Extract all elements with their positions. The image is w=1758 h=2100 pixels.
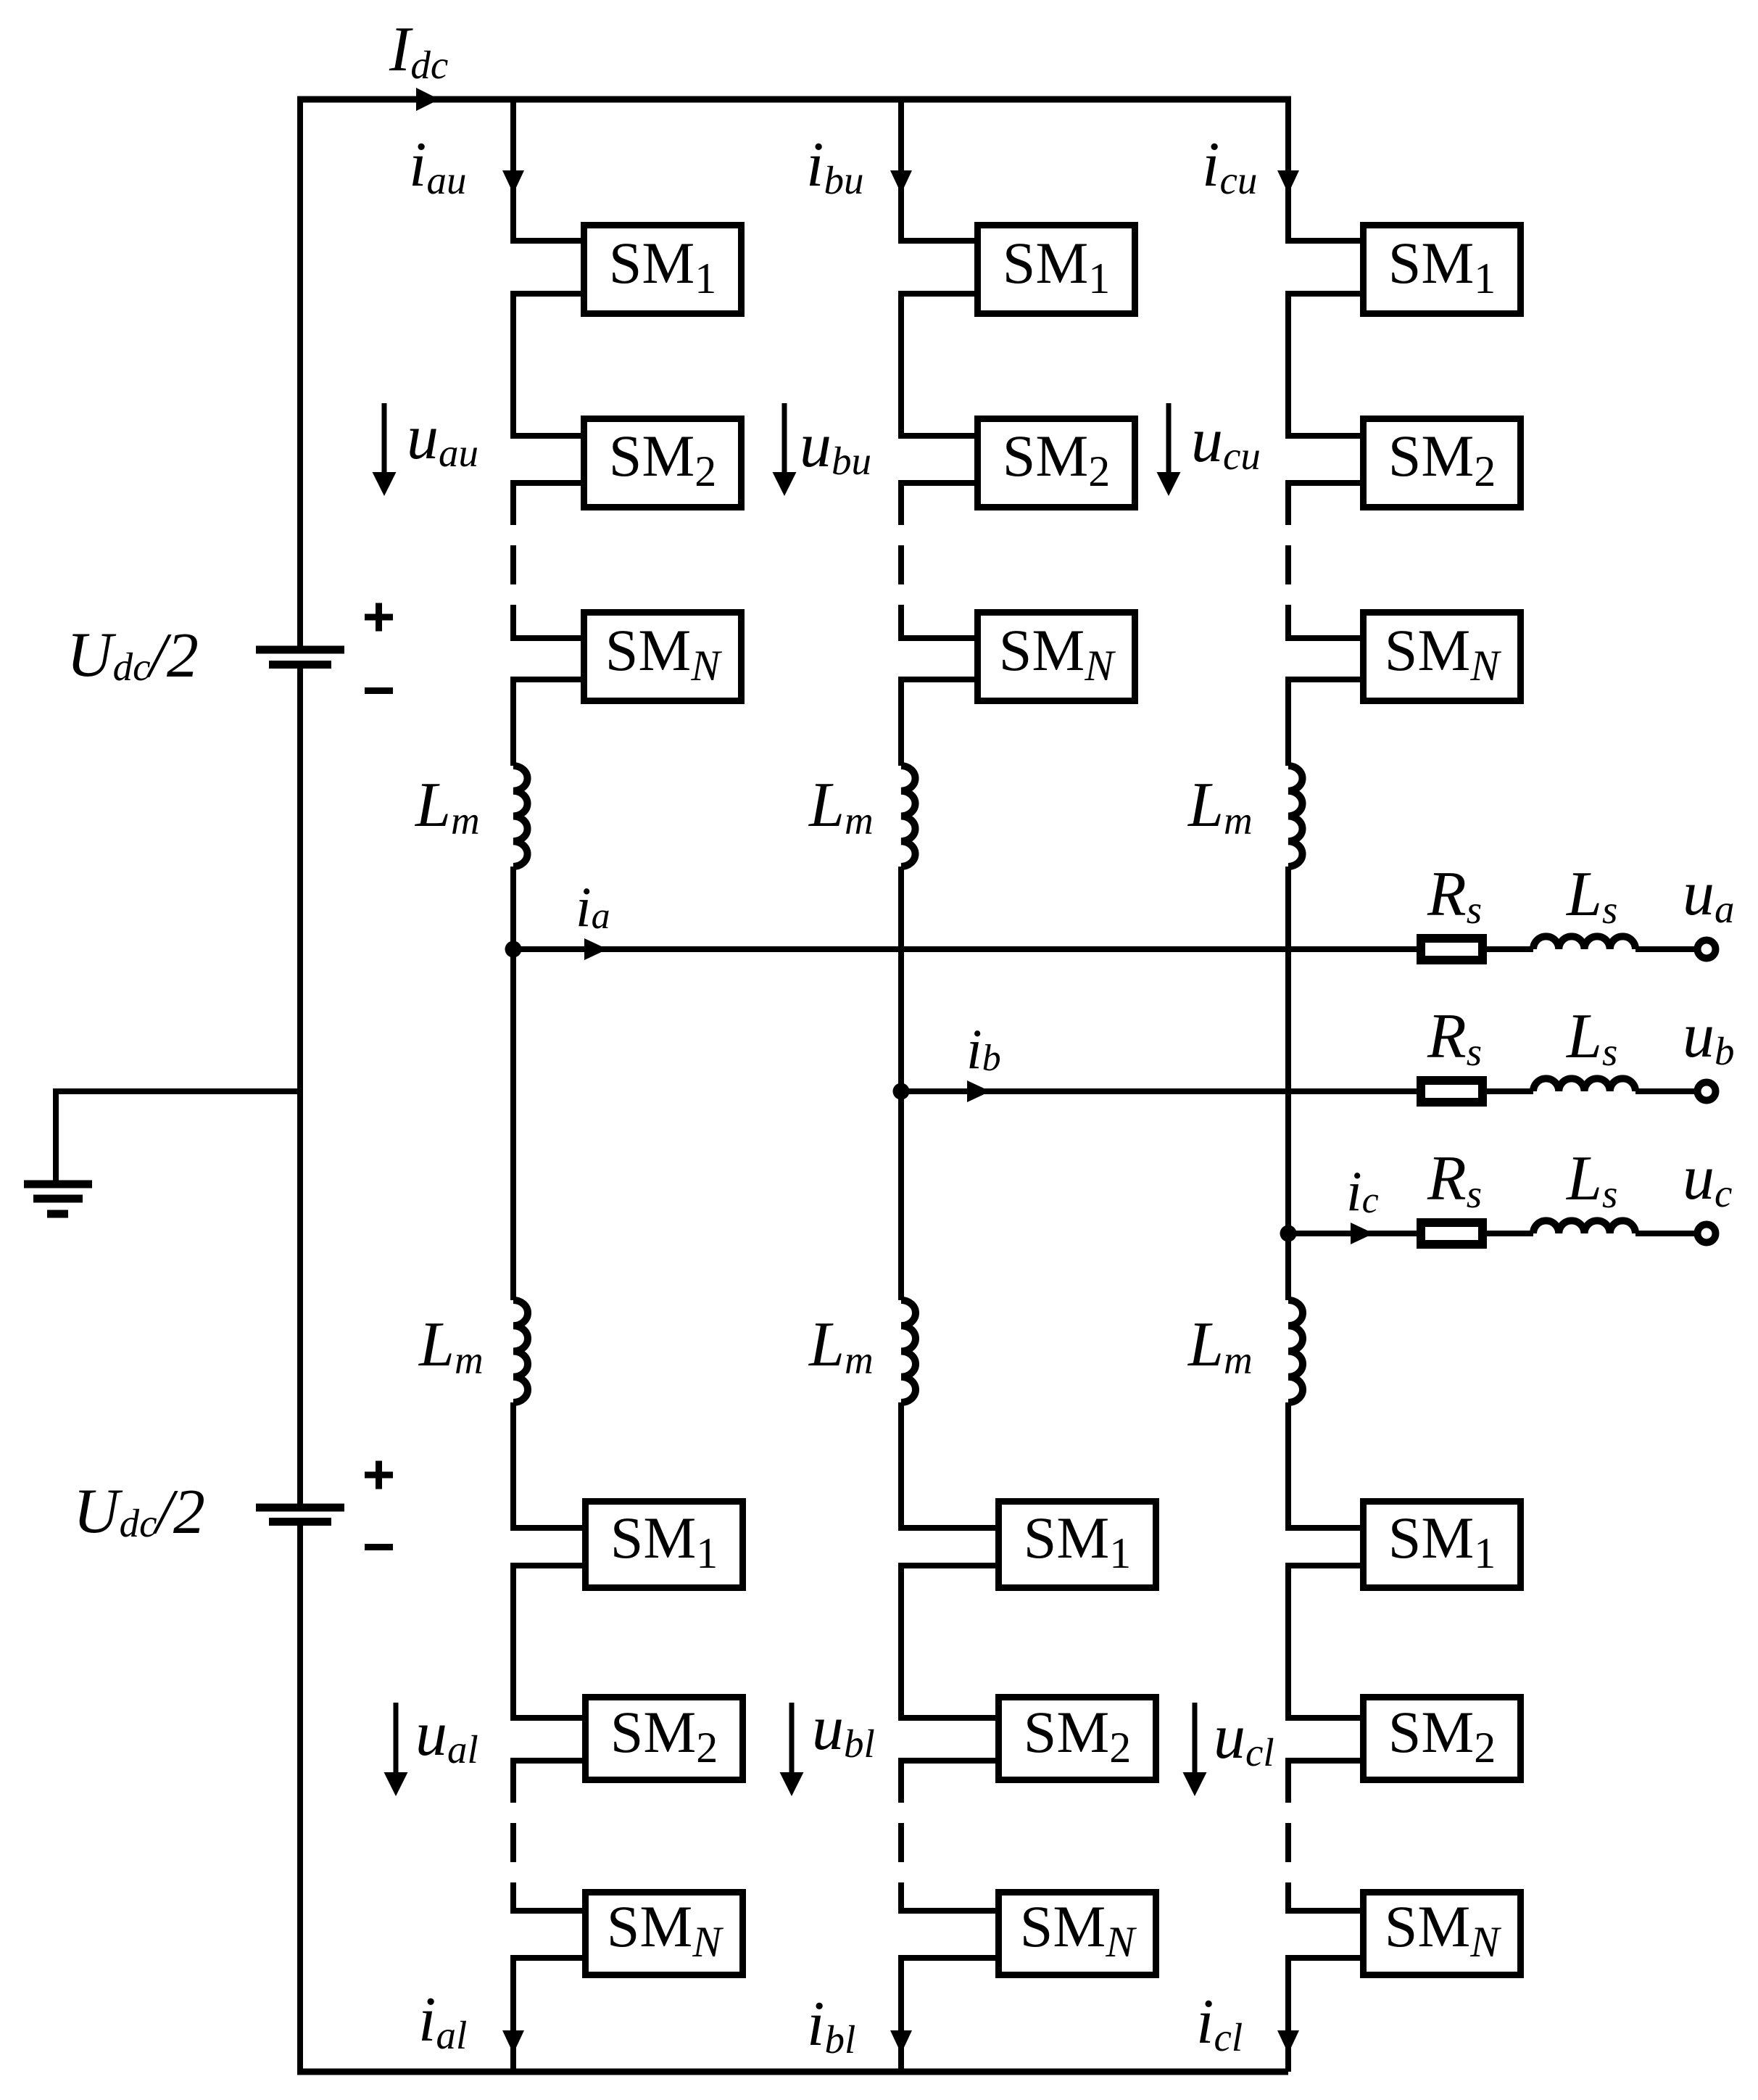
label - upper battery xyxy=(365,687,393,694)
node terminal ub xyxy=(1698,1083,1716,1101)
node a phase output junction xyxy=(505,941,522,958)
svg-text:iau: iau xyxy=(409,130,466,202)
ground xyxy=(24,1181,92,1189)
node terminal uc xyxy=(1698,1225,1716,1243)
svg-text:ibl: ibl xyxy=(807,1989,855,2062)
wire left DC bus middle segment xyxy=(297,665,303,1504)
wire dashed bus SM2-SMN lower c xyxy=(1285,1764,1291,1911)
node terminal ua xyxy=(1698,941,1716,959)
svg-text:ub: ub xyxy=(1683,1001,1735,1073)
svg-text:Lm: Lm xyxy=(418,1310,484,1382)
submodule SM2 lower arm phase c xyxy=(1364,1698,1521,1780)
wire stub to SM2 upper b pin1 xyxy=(898,433,978,439)
label + lower battery xyxy=(365,1472,393,1479)
inductor Lm lower b xyxy=(901,1300,916,1402)
battery lower Udc/2 plate long xyxy=(256,1504,344,1512)
wire SMN to arm inductor upper a xyxy=(510,679,516,766)
wire bus SM1-SM2 lower b xyxy=(898,1566,904,1718)
resistor Rs phase c xyxy=(1421,1223,1483,1244)
arrow uau arm voltage xyxy=(382,403,387,473)
submodule SM1 lower arm phase a xyxy=(586,1502,743,1588)
wire stub to SM1 upper b pin1 xyxy=(898,238,978,244)
submodule SM2 upper arm phase b xyxy=(978,419,1135,508)
submodule SMN lower arm phase a xyxy=(586,1893,743,1975)
wire stub to SMN upper a pin1 xyxy=(510,635,584,641)
inductor Lm upper b xyxy=(901,766,916,867)
svg-text:Lm: Lm xyxy=(1187,1310,1253,1382)
arrow ucl arm voltage xyxy=(1193,1703,1198,1773)
wire stub to SM1 upper c pin1 xyxy=(1285,238,1364,244)
wire stub to SM1 upper a pin1 xyxy=(510,238,584,244)
wire bus SM1-SM2 upper c xyxy=(1285,294,1291,436)
battery lower Udc/2 plate short xyxy=(269,1518,331,1526)
svg-text:Udc/2: Udc/2 xyxy=(73,1476,205,1547)
wire stub from SMN lower a pin2 xyxy=(510,1955,586,1961)
svg-text:Lm: Lm xyxy=(1187,770,1253,843)
submodule SMN upper arm phase c xyxy=(1364,613,1521,701)
submodule SM2 upper arm phase c xyxy=(1364,419,1521,508)
wire phase a AC output line xyxy=(513,946,1417,952)
wire stub from SM1 lower c pin2 xyxy=(1285,1563,1364,1568)
wire bus SM1-SM2 upper a xyxy=(510,294,516,436)
wire ground branch vertical xyxy=(53,1088,59,1184)
wire left DC bus upper segment xyxy=(297,96,303,647)
arrow ubu arm voltage xyxy=(782,403,787,473)
submodule SM2 lower arm phase a xyxy=(586,1698,743,1780)
wire stub to SM1 lower c pin1 xyxy=(1285,1525,1364,1531)
label + upper battery xyxy=(365,614,393,621)
svg-text:Lm: Lm xyxy=(808,1310,874,1382)
arrow ucu arm voltage xyxy=(1166,403,1172,473)
svg-text:uc: uc xyxy=(1683,1143,1732,1215)
node phase a top connection to DC bus / wire down to SM1 xyxy=(510,96,516,244)
wire bus SM1-SM2 lower c xyxy=(1285,1566,1291,1718)
svg-text:ia: ia xyxy=(576,875,610,938)
wire arm inductor to midpoint node a xyxy=(510,867,516,1300)
wire stub to SM1 lower a pin1 xyxy=(510,1525,586,1531)
svg-text:Ls: Ls xyxy=(1565,1144,1617,1216)
arrow ibl arm current xyxy=(890,2030,912,2054)
wire Rs to Ls phase b xyxy=(1487,1088,1533,1094)
svg-text:Rs: Rs xyxy=(1427,859,1482,932)
submodule SM2 lower arm phase b xyxy=(999,1698,1156,1780)
submodule SM1 lower arm phase b xyxy=(999,1502,1156,1588)
svg-text:Ls: Ls xyxy=(1565,859,1617,932)
wire inductor to SM1 lower a xyxy=(510,1402,516,1531)
wire stub from SM2 upper c pin2 xyxy=(1285,480,1364,486)
wire stub from SM2 lower a pin2 xyxy=(510,1758,586,1764)
svg-text:ual: ual xyxy=(415,1699,478,1772)
inductor Ls phase a xyxy=(1533,936,1635,949)
wire stub to SM2 upper c pin1 xyxy=(1285,433,1364,439)
wire left DC bus lower segment xyxy=(297,1522,303,2075)
wire stub from SM2 lower b pin2 xyxy=(898,1758,999,1764)
inductor Lm lower c xyxy=(1288,1300,1303,1402)
wire Ls to terminal phase c xyxy=(1635,1231,1696,1236)
wire dashed bus SM2-SMN upper c xyxy=(1285,486,1291,638)
wire stub from SM1 lower b pin2 xyxy=(898,1563,999,1568)
arrow ic output current xyxy=(1351,1223,1374,1244)
svg-text:Udc/2: Udc/2 xyxy=(67,620,199,691)
inductor Lm upper a xyxy=(513,766,528,867)
submodule SMN lower arm phase c xyxy=(1364,1893,1521,1975)
wire stub from SM1 lower a pin2 xyxy=(510,1563,586,1568)
wire ground branch horizontal xyxy=(56,1088,300,1094)
wire stub from SM1 upper b pin2 xyxy=(898,291,978,297)
svg-text:ib: ib xyxy=(966,1017,1001,1080)
inductor Ls phase b xyxy=(1533,1078,1635,1091)
svg-text:icu: icu xyxy=(1202,130,1257,202)
svg-text:Idc: Idc xyxy=(389,15,448,87)
svg-text:Rs: Rs xyxy=(1427,1144,1482,1216)
wire SMN lower a to bottom DC bus xyxy=(510,1958,516,2072)
wire inductor to SM1 lower c xyxy=(1285,1402,1291,1531)
wire stub to SMN lower a pin1 xyxy=(510,1908,586,1914)
submodule SM1 upper arm phase a xyxy=(584,226,742,314)
wire stub to SMN upper c pin1 xyxy=(1285,635,1364,641)
submodule SM2 upper arm phase a xyxy=(584,419,742,508)
submodule SM1 upper arm phase b xyxy=(978,226,1135,314)
arrow ib output current xyxy=(967,1080,990,1102)
label - lower battery xyxy=(365,1544,393,1550)
wire stub to SMN lower b pin1 xyxy=(898,1908,999,1914)
wire phase b AC output line xyxy=(901,1088,1417,1094)
svg-text:ucl: ucl xyxy=(1214,1702,1274,1774)
svg-text:ubl: ubl xyxy=(812,1693,875,1766)
wire stub to SM2 lower a pin1 xyxy=(510,1715,586,1721)
submodule SMN lower arm phase b xyxy=(999,1893,1156,1975)
wire dashed bus SM2-SMN lower a xyxy=(510,1764,516,1911)
svg-text:ial: ial xyxy=(418,1985,467,2057)
arrow ibu arm current xyxy=(890,170,912,194)
battery upper Udc/2 plate short xyxy=(269,661,331,669)
inductor Lm upper c xyxy=(1288,766,1303,867)
wire bus SM1-SM2 upper b xyxy=(898,294,904,436)
wire Rs to Ls phase c xyxy=(1487,1231,1533,1236)
submodule SM1 lower arm phase c xyxy=(1364,1502,1521,1588)
battery upper Udc/2 plate long xyxy=(256,646,344,654)
wire dashed bus SM2-SMN lower b xyxy=(898,1764,904,1911)
wire SMN lower c to bottom DC bus xyxy=(1285,1958,1291,2072)
node phase c top connection to DC bus / wire down to SM1 xyxy=(1285,96,1291,244)
arrow iau arm current xyxy=(502,170,524,194)
wire Rs to Ls phase a xyxy=(1487,946,1533,952)
wire bottom DC bus xyxy=(297,2069,1288,2075)
arrow ual arm voltage xyxy=(394,1703,399,1773)
wire dashed bus SM2-SMN upper a xyxy=(510,486,516,638)
inductor Lm lower a xyxy=(513,1300,528,1402)
wire stub from SM2 upper b pin2 xyxy=(898,480,978,486)
svg-text:ic: ic xyxy=(1346,1159,1379,1223)
svg-text:ucu: ucu xyxy=(1191,405,1261,478)
wire stub from SM1 upper a pin2 xyxy=(510,291,584,297)
svg-text:Lm: Lm xyxy=(414,770,480,843)
wire SMN lower b to bottom DC bus xyxy=(898,1958,904,2072)
wire SMN to arm inductor upper c xyxy=(1285,679,1291,766)
wire stub to SMN lower c pin1 xyxy=(1285,1908,1364,1914)
wire stub to SM2 lower b pin1 xyxy=(898,1715,999,1721)
arrow ial arm current xyxy=(502,2030,524,2054)
submodule SMN upper arm phase b xyxy=(978,613,1135,701)
wire bus SM1-SM2 lower a xyxy=(510,1566,516,1718)
wire stub to SM1 lower b pin1 xyxy=(898,1525,999,1531)
resistor Rs phase a xyxy=(1421,938,1483,960)
node phase b top connection to DC bus / wire down to SM1 xyxy=(898,96,904,244)
arrow Idc on top bus xyxy=(416,88,439,111)
wire stub from SMN lower c pin2 xyxy=(1285,1955,1364,1961)
svg-text:Ls: Ls xyxy=(1565,1001,1617,1074)
wire Ls to terminal phase a xyxy=(1635,946,1696,952)
arrow ia output current xyxy=(584,938,608,960)
svg-text:uau: uau xyxy=(407,402,478,475)
wire stub from SM2 upper a pin2 xyxy=(510,480,584,486)
svg-text:Rs: Rs xyxy=(1427,1001,1482,1074)
node b phase output junction xyxy=(893,1083,910,1100)
wire stub from SMN upper b pin2 xyxy=(898,677,978,682)
wire stub from SMN lower b pin2 xyxy=(898,1955,999,1961)
node c phase output junction xyxy=(1280,1225,1297,1242)
svg-text:ubu: ubu xyxy=(800,410,871,483)
wire stub to SMN upper b pin1 xyxy=(898,635,978,641)
resistor Rs phase b xyxy=(1421,1080,1483,1102)
arrow icl arm current xyxy=(1277,2030,1299,2054)
wire stub to SM2 lower c pin1 xyxy=(1285,1715,1364,1721)
svg-text:icl: icl xyxy=(1196,1987,1243,2059)
wire stub from SM2 lower c pin2 xyxy=(1285,1758,1364,1764)
wire stub to SM2 upper a pin1 xyxy=(510,433,584,439)
wire stub from SMN upper c pin2 xyxy=(1285,677,1364,682)
wire inductor to SM1 lower b xyxy=(898,1402,904,1531)
wire stub from SM1 upper c pin2 xyxy=(1285,291,1364,297)
wire arm inductor to midpoint node b xyxy=(898,867,904,1300)
inductor Ls phase c xyxy=(1533,1220,1635,1233)
svg-text:Lm: Lm xyxy=(808,770,874,843)
submodule SMN upper arm phase a xyxy=(584,613,742,701)
wire top DC bus xyxy=(297,96,1288,103)
wire arm inductor to midpoint node c xyxy=(1285,867,1291,1300)
svg-text:ibu: ibu xyxy=(806,130,863,202)
wire stub from SMN upper a pin2 xyxy=(510,677,584,682)
wire phase c AC output line xyxy=(1288,1231,1417,1236)
arrow ubl arm voltage xyxy=(789,1703,795,1773)
wire SMN to arm inductor upper b xyxy=(898,679,904,766)
wire Ls to terminal phase b xyxy=(1635,1088,1696,1094)
submodule SM1 upper arm phase c xyxy=(1364,226,1521,314)
svg-text:ua: ua xyxy=(1683,859,1735,931)
wire dashed bus SM2-SMN upper b xyxy=(898,486,904,638)
arrow icu arm current xyxy=(1277,170,1299,194)
